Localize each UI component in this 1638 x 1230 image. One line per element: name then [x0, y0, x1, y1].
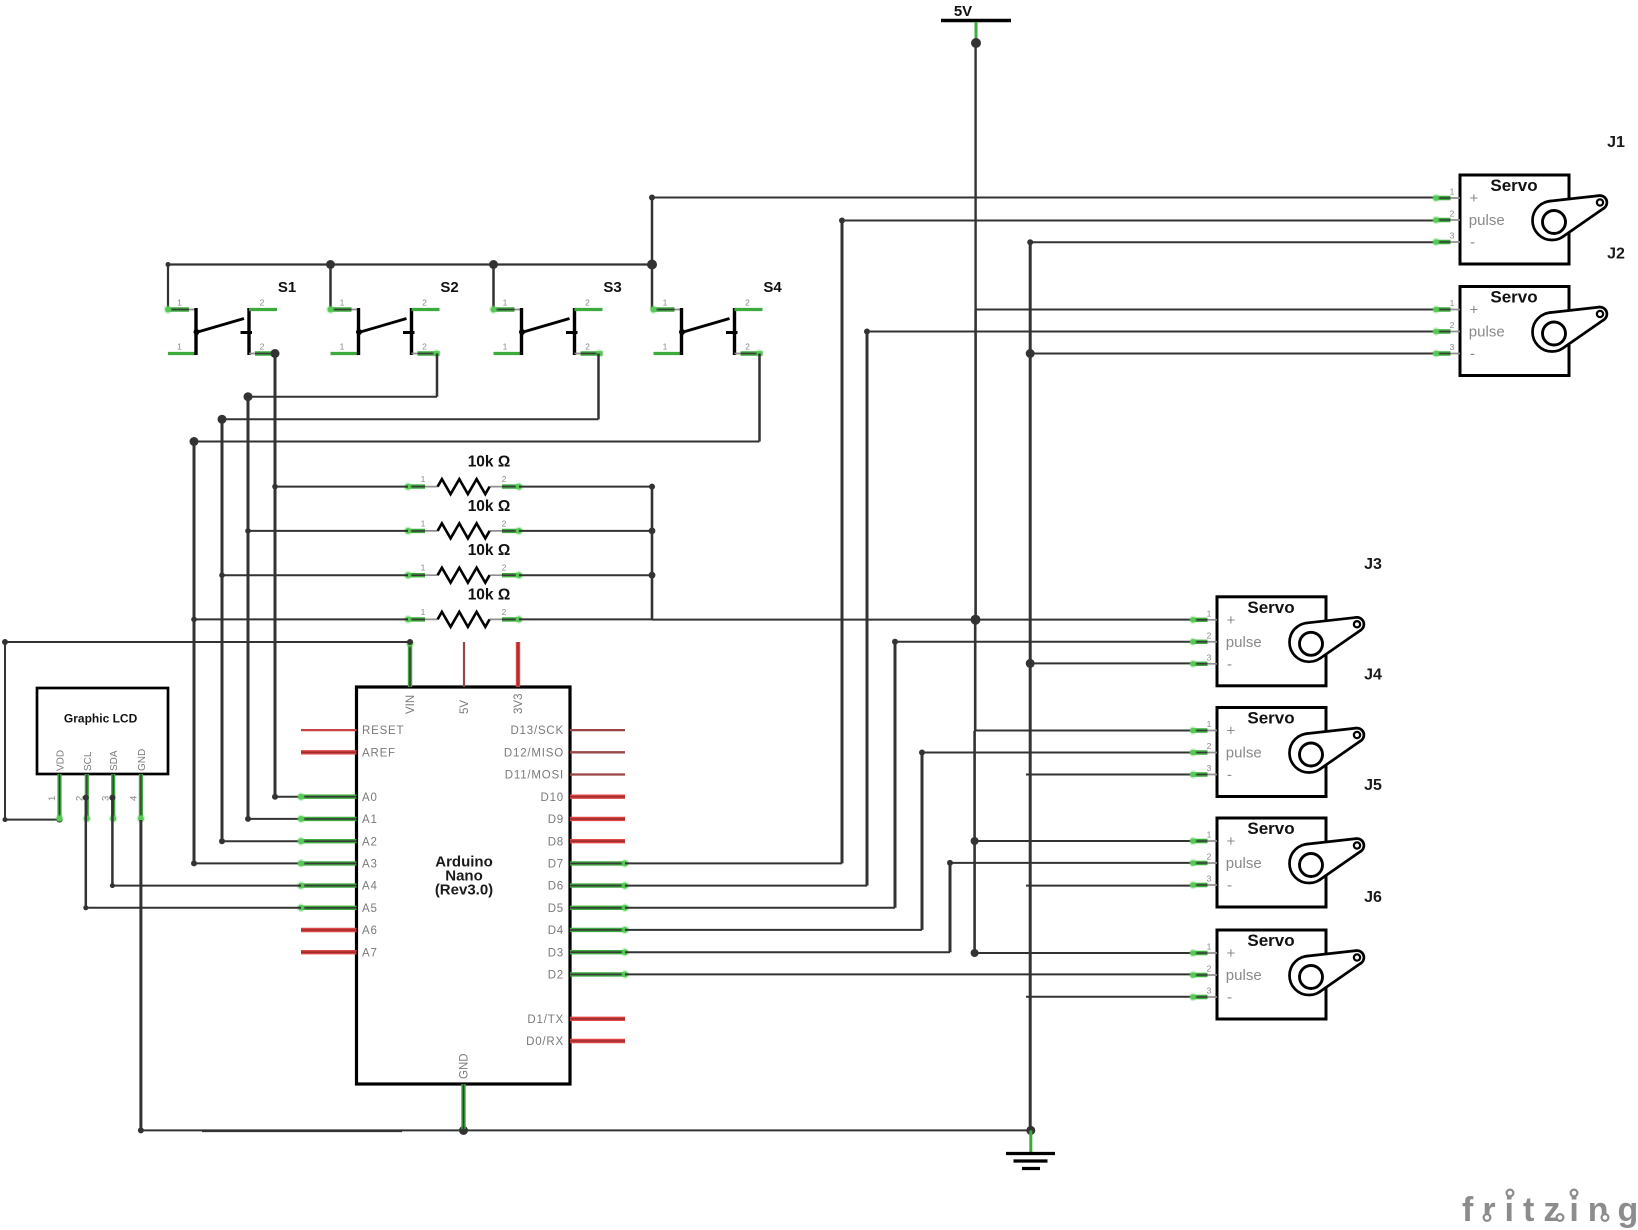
svg-text:S2: S2 — [440, 279, 458, 296]
svg-text:2: 2 — [502, 607, 507, 617]
svg-text:10k Ω: 10k Ω — [468, 542, 511, 559]
wire D2 to J6 pulse — [625, 973, 1191, 975]
wire D4 to J4 pulse — [625, 750, 1191, 930]
svg-text:2: 2 — [260, 342, 265, 352]
svg-text:1: 1 — [177, 342, 182, 352]
connector J1 Servo — [1432, 134, 1625, 264]
svg-text:10k Ω: 10k Ω — [468, 586, 511, 603]
svg-text:2: 2 — [745, 342, 750, 352]
svg-text:J3: J3 — [1364, 556, 1382, 573]
wire S2 pin2 jog — [248, 354, 437, 397]
pin D7 — [548, 859, 630, 871]
wire D6 to J2 pulse — [625, 329, 1434, 886]
pin D5 — [548, 903, 630, 915]
svg-text:2: 2 — [502, 474, 507, 484]
label Graphic LCD — [64, 712, 138, 726]
svg-text:VIN: VIN — [405, 695, 417, 714]
wire D3 to J5 pulse — [625, 860, 1191, 952]
svg-text:5V: 5V — [459, 700, 471, 714]
svg-text:2: 2 — [585, 342, 590, 352]
wire J1- from GND rail — [1030, 241, 1434, 243]
svg-text:pulse: pulse — [1226, 967, 1262, 984]
svg-text:Servo: Servo — [1490, 288, 1537, 307]
wire J5- from GND rail — [1026, 885, 1191, 887]
svg-text:5V: 5V — [954, 3, 972, 20]
wire J3+ / R4 row to servo — [519, 618, 1191, 620]
wire J4- from GND rail — [1026, 774, 1191, 776]
svg-text:+: + — [1470, 302, 1479, 319]
junction GND rail / J3- — [1026, 659, 1035, 668]
pin D11/MOSI — [505, 770, 625, 782]
pin A3 — [297, 859, 378, 871]
svg-text:1: 1 — [1207, 608, 1212, 618]
svg-text:A4: A4 — [362, 881, 378, 893]
svg-text:2: 2 — [260, 298, 265, 308]
svg-text:3: 3 — [1207, 652, 1212, 662]
svg-text:2: 2 — [422, 342, 427, 352]
junction 5V stub — [971, 38, 981, 48]
svg-text:D2: D2 — [548, 970, 564, 982]
wire R3 to bus — [519, 572, 655, 579]
svg-text:+: + — [1227, 945, 1236, 962]
svg-text:Servo: Servo — [1247, 709, 1294, 728]
svg-text:pulse: pulse — [1226, 745, 1262, 762]
pin D8 — [548, 836, 625, 848]
switch S4 — [649, 279, 782, 358]
wire switch 5V rail — [166, 262, 653, 310]
pin D2 — [548, 970, 630, 982]
svg-text:AREF: AREF — [362, 747, 396, 759]
resistor R4 10k — [404, 586, 524, 627]
wire D7 to J1 pulse — [625, 218, 1434, 864]
pin LCD SDA — [101, 750, 121, 823]
switch S2 — [326, 279, 459, 358]
junction 5V rail / J6+ — [971, 949, 979, 957]
svg-text:4: 4 — [128, 796, 139, 801]
junction Arduino GND / ground wire — [459, 1126, 468, 1135]
resistor R1 10k — [404, 454, 524, 495]
wire J1+ riser and horizontal — [649, 195, 1434, 265]
wire J6+ from 5V rail — [975, 952, 1191, 954]
svg-text:1: 1 — [340, 342, 345, 352]
pin LCD VDD — [47, 750, 67, 823]
wire R2 to bus — [519, 528, 655, 535]
svg-text:1: 1 — [663, 298, 668, 308]
svg-text:3: 3 — [1207, 763, 1212, 773]
wire J3- from GND rail — [1030, 662, 1191, 664]
junction 5V rail / J3+ / resistor bus — [971, 615, 981, 625]
pin RESET — [301, 725, 404, 737]
pin D3 — [548, 947, 630, 959]
svg-text:+: + — [1227, 833, 1236, 850]
pin A4 — [297, 881, 378, 893]
pin D9 — [548, 814, 625, 826]
fritzing watermark — [1462, 1190, 1638, 1229]
junction ground symbol node — [1026, 1126, 1035, 1135]
svg-text:1: 1 — [503, 298, 508, 308]
svg-text:J4: J4 — [1364, 667, 1382, 684]
svg-text:VDD: VDD — [56, 750, 67, 771]
svg-text:-: - — [1227, 877, 1232, 894]
IC Graphic LCD body — [37, 688, 168, 774]
svg-text:+: + — [1227, 612, 1236, 629]
wire J4+ from 5V rail — [975, 730, 1191, 732]
junction rail / S2 — [326, 260, 335, 310]
resistor R2 10k — [404, 498, 524, 539]
svg-text:D13/SCK: D13/SCK — [510, 725, 564, 737]
svg-text:fritzing: fritzing — [1462, 1191, 1638, 1229]
svg-text:2: 2 — [1207, 964, 1212, 974]
IC U1 Arduino Nano body — [357, 687, 571, 1084]
svg-text:1: 1 — [421, 474, 426, 484]
svg-text:D6: D6 — [548, 881, 564, 893]
junction GND rail / J2- — [1026, 349, 1035, 358]
svg-text:D3: D3 — [548, 947, 564, 959]
svg-text:1: 1 — [340, 298, 345, 308]
svg-text:S4: S4 — [763, 279, 782, 296]
svg-text:D10: D10 — [541, 792, 565, 804]
svg-text:10k Ω: 10k Ω — [468, 498, 511, 515]
svg-text:1: 1 — [421, 518, 426, 528]
wire S3 node to R3/A2 — [218, 415, 302, 844]
svg-text:RESET: RESET — [362, 725, 404, 737]
svg-text:-: - — [1470, 234, 1475, 251]
pin VIN lead — [406, 639, 415, 687]
switch S3 — [489, 279, 622, 358]
svg-text:1: 1 — [1207, 830, 1212, 840]
svg-text:+: + — [1227, 723, 1236, 740]
wire 5V rail vertical — [975, 43, 976, 953]
svg-text:3: 3 — [1207, 986, 1212, 996]
wire resistor bus vertical — [649, 484, 655, 620]
pin A0 — [297, 792, 378, 804]
pin D6 — [548, 881, 630, 893]
connector J6 Servo — [1189, 889, 1382, 1019]
connector J3 Servo — [1189, 556, 1382, 686]
pin D0/RX — [526, 1036, 625, 1048]
svg-text:1: 1 — [177, 298, 182, 308]
svg-text:A6: A6 — [362, 925, 378, 937]
wire GND rail vertical — [1029, 242, 1032, 1130]
svg-text:D1/TX: D1/TX — [527, 1014, 564, 1026]
wire LCD VDD to VIN — [2, 639, 413, 823]
svg-text:1: 1 — [1450, 187, 1455, 197]
svg-text:2: 2 — [422, 298, 427, 308]
svg-text:3: 3 — [1450, 231, 1455, 241]
svg-text:pulse: pulse — [1226, 634, 1262, 651]
svg-text:S1: S1 — [278, 279, 296, 296]
svg-text:A5: A5 — [362, 903, 378, 915]
svg-text:+: + — [1470, 190, 1479, 207]
pin A5 — [297, 903, 378, 915]
pin A6 — [301, 925, 378, 937]
svg-text:1: 1 — [1207, 942, 1212, 952]
svg-text:D8: D8 — [548, 836, 564, 848]
svg-text:pulse: pulse — [1226, 855, 1262, 872]
label Arduino Nano title — [435, 854, 493, 899]
wire LCD SDA to A4 — [109, 795, 301, 889]
svg-text:A1: A1 — [362, 814, 378, 826]
svg-text:3V3: 3V3 — [513, 694, 525, 714]
svg-text:2: 2 — [1207, 852, 1212, 862]
svg-text:2: 2 — [502, 518, 507, 528]
svg-text:(Rev3.0): (Rev3.0) — [435, 882, 493, 899]
svg-text:D9: D9 — [548, 814, 564, 826]
pin 3V3 lead — [516, 642, 520, 687]
pin AREF — [301, 747, 396, 759]
svg-text:1: 1 — [421, 607, 426, 617]
junction 5V rail / J5+ — [971, 837, 979, 845]
svg-text:-: - — [1227, 989, 1232, 1006]
svg-text:2: 2 — [1450, 320, 1455, 330]
svg-text:A2: A2 — [362, 836, 378, 848]
svg-text:GND: GND — [137, 749, 148, 771]
wire LCD SCL to A5 — [83, 795, 301, 911]
svg-text:2: 2 — [745, 298, 750, 308]
junction rail / S4 / J1+ riser — [647, 260, 657, 310]
wire S4 pin2 jog — [194, 354, 760, 442]
svg-text:pulse: pulse — [1469, 324, 1505, 341]
svg-text:2: 2 — [1450, 209, 1455, 219]
svg-text:J1: J1 — [1607, 134, 1625, 151]
svg-text:-: - — [1227, 656, 1232, 673]
pin 5V lead — [463, 642, 465, 687]
pin D10 — [541, 792, 626, 804]
pin LCD GND — [128, 749, 148, 823]
wire S2 node to R2 — [248, 530, 408, 532]
pin LCD SCL — [74, 751, 94, 823]
wire bottom ground horizontal — [141, 1129, 1031, 1132]
svg-text:10k Ω: 10k Ω — [468, 454, 511, 471]
svg-text:J5: J5 — [1364, 777, 1382, 794]
svg-text:-: - — [1470, 346, 1475, 363]
resistor R3 10k — [404, 542, 524, 583]
svg-text:1: 1 — [1450, 298, 1455, 308]
svg-text:Graphic LCD: Graphic LCD — [64, 712, 138, 726]
wire D5 to J3 pulse — [625, 639, 1191, 908]
wire S1 pin2 to R1/A0 — [271, 349, 302, 800]
pin A7 — [301, 947, 378, 959]
svg-text:2: 2 — [585, 298, 590, 308]
svg-text:Servo: Servo — [1247, 931, 1294, 950]
pin A1 — [297, 814, 378, 826]
wire J2+ from 5V rail — [976, 309, 1434, 311]
pin GND lead — [461, 1084, 465, 1129]
svg-text:GND: GND — [459, 1053, 471, 1079]
svg-text:A7: A7 — [362, 947, 378, 959]
junction rail / S3 — [489, 260, 498, 310]
svg-text:D5: D5 — [548, 903, 564, 915]
svg-text:S3: S3 — [603, 279, 621, 296]
svg-text:3: 3 — [1450, 342, 1455, 352]
svg-text:Servo: Servo — [1247, 598, 1294, 617]
wire S2 node to R2/A1 — [244, 392, 302, 822]
svg-text:1: 1 — [421, 563, 426, 573]
svg-text:J2: J2 — [1607, 246, 1625, 263]
svg-text:pulse: pulse — [1469, 212, 1505, 229]
pin D12/MISO — [504, 747, 625, 759]
ground symbol — [1006, 1130, 1055, 1168]
svg-text:2: 2 — [502, 563, 507, 573]
wire R1 to bus — [519, 486, 652, 488]
svg-text:3: 3 — [1207, 874, 1212, 884]
wire J2- from GND rail — [1030, 353, 1434, 355]
wire LCD GND down — [139, 820, 142, 1130]
junction bottom-left corner — [138, 1127, 144, 1133]
svg-text:J6: J6 — [1364, 889, 1382, 906]
svg-text:A3: A3 — [362, 859, 378, 871]
connector J4 Servo — [1189, 667, 1382, 797]
svg-text:SCL: SCL — [83, 751, 94, 771]
svg-text:1: 1 — [663, 342, 668, 352]
wire S1 node to R1 — [275, 486, 408, 488]
svg-text:Servo: Servo — [1247, 819, 1294, 838]
switch S1 — [164, 279, 297, 358]
connector J5 Servo — [1189, 777, 1382, 907]
wire S3 pin2 jog — [222, 354, 599, 420]
svg-text:A0: A0 — [362, 792, 378, 804]
svg-text:2: 2 — [1207, 630, 1212, 640]
wire S3 node to R3 — [222, 574, 408, 576]
svg-text:1: 1 — [503, 342, 508, 352]
pin D4 — [548, 925, 630, 937]
svg-text:-: - — [1227, 767, 1232, 784]
svg-text:1: 1 — [1207, 719, 1212, 729]
svg-text:Servo: Servo — [1490, 176, 1537, 195]
wire J5+ from 5V rail — [975, 840, 1191, 842]
svg-text:D4: D4 — [548, 925, 564, 937]
wire S4 node to R4 — [194, 618, 408, 620]
svg-text:D7: D7 — [548, 859, 564, 871]
pin D1/TX — [527, 1014, 625, 1026]
svg-text:SDA: SDA — [109, 750, 120, 771]
pin A2 — [297, 836, 378, 848]
pin D13/SCK — [510, 725, 625, 737]
svg-text:1: 1 — [47, 796, 58, 801]
wire S4 node to R4/A3 — [190, 437, 302, 866]
power symbol 5V — [941, 3, 1011, 43]
svg-text:2: 2 — [1207, 741, 1212, 751]
svg-text:D12/MISO: D12/MISO — [504, 747, 564, 759]
wire J6- from GND rail — [1026, 996, 1191, 998]
svg-text:D11/MOSI: D11/MOSI — [505, 770, 564, 782]
connector J2 Servo — [1432, 246, 1625, 376]
svg-text:D0/RX: D0/RX — [526, 1036, 564, 1048]
junction GND rail corner J1- — [1027, 239, 1033, 245]
